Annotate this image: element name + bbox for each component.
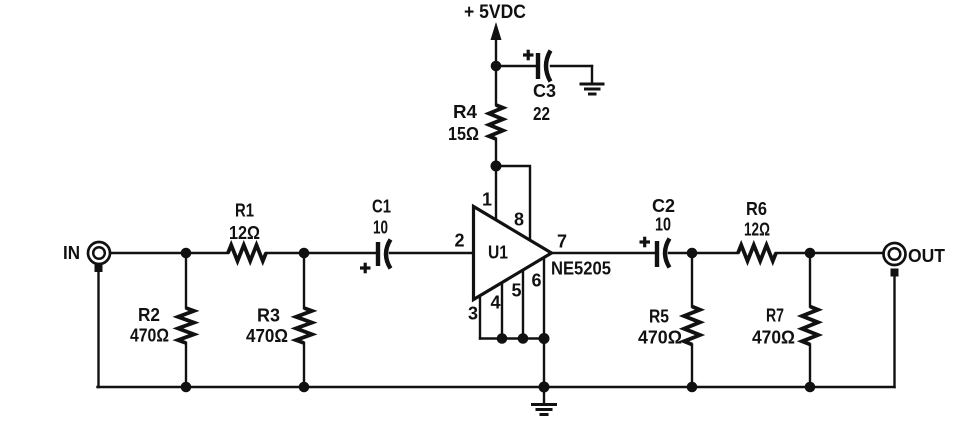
- svg-text:12Ω: 12Ω: [229, 223, 260, 243]
- svg-text:R4: R4: [453, 102, 477, 122]
- svg-text:470Ω: 470Ω: [638, 328, 682, 348]
- svg-text:5: 5: [512, 281, 522, 301]
- svg-text:1: 1: [482, 190, 492, 210]
- svg-text:10: 10: [655, 215, 671, 235]
- svg-text:R6: R6: [746, 199, 767, 219]
- svg-text:10: 10: [373, 218, 388, 238]
- svg-text:C1: C1: [372, 197, 391, 217]
- svg-text:NE5205: NE5205: [551, 259, 611, 279]
- svg-text:+ 5VDC: + 5VDC: [464, 1, 526, 23]
- svg-text:3: 3: [468, 304, 478, 324]
- svg-text:470Ω: 470Ω: [130, 326, 169, 346]
- svg-text:U1: U1: [488, 243, 508, 263]
- svg-text:OUT: OUT: [908, 246, 945, 266]
- svg-text:R5: R5: [649, 307, 669, 327]
- svg-text:8: 8: [514, 210, 524, 230]
- svg-text:4: 4: [491, 293, 501, 313]
- svg-text:15Ω: 15Ω: [448, 124, 479, 144]
- svg-text:R3: R3: [257, 306, 280, 326]
- svg-text:R2: R2: [138, 305, 160, 325]
- svg-text:22: 22: [533, 104, 550, 124]
- svg-text:6: 6: [532, 271, 542, 291]
- svg-text:IN: IN: [63, 243, 80, 263]
- svg-text:R1: R1: [235, 201, 254, 221]
- svg-text:2: 2: [455, 231, 465, 251]
- svg-text:7: 7: [557, 232, 567, 252]
- svg-text:C2: C2: [652, 196, 675, 216]
- svg-text:12Ω: 12Ω: [744, 220, 770, 240]
- svg-text:C3: C3: [533, 81, 556, 101]
- svg-text:R7: R7: [766, 306, 784, 326]
- svg-text:470Ω: 470Ω: [246, 326, 288, 346]
- svg-text:470Ω: 470Ω: [752, 328, 795, 348]
